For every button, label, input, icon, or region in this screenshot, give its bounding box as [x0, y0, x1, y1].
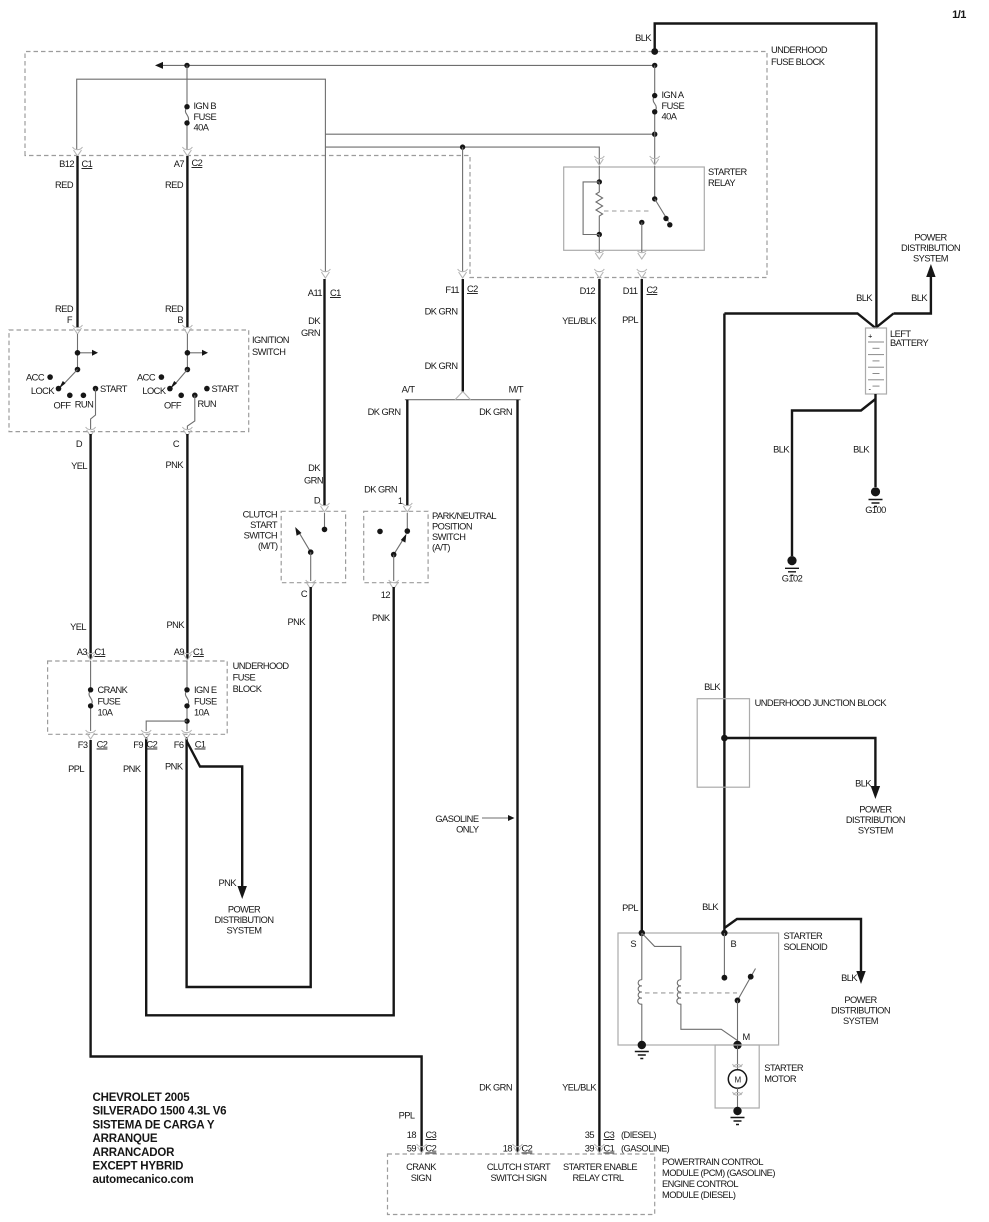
svg-text:SILVERADO 1500 4.3L V6: SILVERADO 1500 4.3L V6 [93, 1106, 227, 1118]
arrow right (right half) [187, 352, 202, 354]
contact OFF [67, 393, 73, 399]
svg-text:18: 18 [503, 1144, 513, 1154]
svg-text:C1: C1 [95, 647, 106, 657]
relay switch feed [654, 166, 656, 199]
svg-text:D11: D11 [623, 286, 638, 296]
svg-text:ARRANQUE: ARRANQUE [93, 1133, 158, 1145]
connector C (ignition switch) [182, 427, 192, 436]
svg-text:BLK: BLK [855, 779, 872, 789]
powertrain control module dashed outline [388, 1154, 655, 1215]
node: battery feed enters fuse block [651, 48, 658, 55]
svg-text:+: + [868, 332, 873, 341]
svg-text:35: 35 [585, 1130, 595, 1140]
svg-text:SWITCH: SWITCH [252, 347, 285, 357]
svg-text:ENGINE CONTROL: ENGINE CONTROL [662, 1179, 738, 1189]
wire: BLK main feed down through junction block to solenoid B [723, 314, 725, 934]
starter solenoid box [618, 933, 779, 1045]
svg-text:FUSE: FUSE [98, 697, 121, 707]
fuse IGN A 40A [654, 65, 656, 134]
node: IGN E output split [184, 718, 189, 723]
svg-text:D12: D12 [580, 286, 596, 296]
svg-text:PPL: PPL [622, 315, 638, 325]
svg-text:DISTRIBUTION: DISTRIBUTION [215, 915, 274, 925]
svg-text:M/T: M/T [509, 385, 524, 395]
connector F (ignition switch) [73, 325, 83, 334]
contact OFF (right) [178, 393, 184, 399]
connector: relay switch top [650, 156, 660, 165]
svg-text:C1: C1 [330, 288, 341, 298]
solenoid hold-in winding [638, 980, 642, 1004]
svg-text:IGN E: IGN E [194, 685, 217, 695]
connector below motor [733, 1092, 743, 1095]
svg-text:(M/T): (M/T) [258, 541, 278, 551]
wire: DK GRN F11 down to A/T M/T fork [462, 279, 464, 392]
svg-text:LOCK: LOCK [142, 386, 166, 396]
park/neutral blade (arrow up-right, near pin 1) [394, 539, 404, 554]
svg-text:10A: 10A [194, 708, 210, 718]
wire: DK GRN A/T branch to park/neutral pin 1 [406, 400, 408, 506]
wire: blade to C terminal [310, 552, 312, 581]
solenoid: hold-in winding to ground [641, 1004, 643, 1045]
svg-text:SWITCH SIGN: SWITCH SIGN [491, 1173, 547, 1183]
svg-text:A11: A11 [308, 288, 323, 298]
svg-text:A3: A3 [77, 647, 88, 657]
svg-text:PNK: PNK [167, 620, 186, 630]
node B feed [185, 350, 191, 356]
wire: junction block branch to power distribution arrow [724, 738, 875, 786]
node: L1 to IGN B fuse [184, 63, 189, 68]
connector C on clutch switch [306, 580, 316, 589]
connector A3 C1 [86, 651, 96, 660]
svg-text:40A: 40A [662, 112, 678, 122]
relay switch blade [655, 199, 669, 222]
connector F11 C2 [458, 269, 468, 278]
svg-text:PNK: PNK [288, 617, 307, 627]
wire: battery positive feed BLK (top) [655, 24, 877, 329]
svg-text:G102: G102 [782, 574, 803, 584]
svg-text:F9: F9 [133, 740, 143, 750]
svg-text:PNK: PNK [372, 613, 391, 623]
underhood fuse block dashed outline [25, 52, 767, 278]
svg-text:DK: DK [308, 463, 321, 473]
svg-text:M: M [743, 1032, 750, 1042]
wire: DK GRN M/T branch (long, to PCM clutch start switch sign) [516, 400, 518, 1152]
svg-text:G100: G100 [865, 505, 886, 515]
svg-text:POWER: POWER [914, 233, 947, 243]
svg-text:DISTRIBUTION: DISTRIBUTION [831, 1006, 890, 1016]
svg-text:PNK: PNK [166, 460, 185, 470]
solenoid: pull-in winding to M [681, 1004, 738, 1045]
svg-text:BLK: BLK [704, 682, 721, 692]
svg-text:M: M [734, 1076, 741, 1085]
svg-text:PNK: PNK [165, 762, 184, 772]
arrow right (left half) [78, 352, 93, 354]
svg-text:DK GRN: DK GRN [425, 307, 458, 317]
wire: BLK battery bus right branch with up arrow to power distribution [876, 276, 931, 328]
svg-text:STARTER ENABLE: STARTER ENABLE [563, 1162, 637, 1172]
svg-text:GRN: GRN [304, 476, 323, 486]
PCM connector pins: 18 C3 / 59 C2 [417, 1144, 427, 1153]
solenoid ground [638, 1041, 646, 1049]
svg-text:SWITCH: SWITCH [244, 531, 277, 541]
ground G100 [871, 487, 880, 496]
svg-text:PPL: PPL [399, 1111, 415, 1121]
connector F6 C1 [182, 730, 192, 739]
svg-text:SYSTEM: SYSTEM [858, 826, 893, 836]
connector F9 C2 [141, 730, 151, 739]
connector B (ignition switch) [182, 325, 192, 334]
svg-text:40A: 40A [194, 123, 210, 133]
contact RUN [81, 393, 87, 399]
ground G102 [787, 556, 796, 565]
clutch switch blade (open, arrow up-left) [299, 532, 311, 552]
svg-text:B12: B12 [59, 159, 74, 169]
park/neutral position switch dashed outline [364, 511, 428, 582]
contact START [93, 386, 99, 392]
svg-text:POSITION: POSITION [432, 522, 472, 532]
svg-text:IGNITION: IGNITION [252, 335, 289, 345]
svg-text:OFF: OFF [54, 401, 72, 411]
wire: PNK park/neutral 12 loop down-left-up to F9 C2 [146, 587, 394, 1015]
wire: PNK ignition C to A9 [186, 434, 188, 659]
svg-text:C2: C2 [467, 284, 478, 294]
svg-text:BLK: BLK [702, 902, 719, 912]
svg-text:F3: F3 [78, 740, 88, 750]
svg-text:59: 59 [407, 1144, 417, 1154]
svg-text:ONLY: ONLY [456, 825, 479, 835]
fuse IGN B 40A [186, 65, 188, 150]
wire: PPL D11 to starter solenoid S [641, 279, 643, 933]
wire: RUN to C terminal [187, 395, 194, 429]
contact START (right) [204, 386, 210, 392]
contact LOCK [56, 386, 62, 392]
underhood fuse block (lower) dashed outline [48, 661, 228, 734]
svg-text:D: D [76, 439, 83, 449]
svg-text:ACC: ACC [26, 373, 45, 383]
relay coil resistor [596, 182, 603, 235]
wire: B feed [186, 334, 188, 370]
svg-text:START: START [100, 384, 128, 394]
svg-text:FUSE: FUSE [194, 697, 217, 707]
wire: F11 internal drop [462, 147, 464, 272]
contact ACC (right) [159, 374, 165, 380]
svg-text:SISTEMA DE CARGA Y: SISTEMA DE CARGA Y [93, 1119, 215, 1131]
svg-text:F11: F11 [445, 285, 459, 295]
svg-text:C2: C2 [522, 1144, 533, 1154]
svg-text:BLK: BLK [773, 445, 790, 455]
starter motor box [715, 1045, 759, 1108]
relay coil parallel bracket [583, 182, 599, 235]
svg-text:MOTOR: MOTOR [764, 1074, 797, 1084]
svg-text:CLUTCH: CLUTCH [243, 510, 277, 520]
svg-text:PPL: PPL [68, 764, 84, 774]
wire: fuse block internal bus L1 with left arrow [163, 64, 655, 66]
solenoid hold-in winding feed [641, 933, 643, 980]
svg-text:A7: A7 [174, 159, 185, 169]
solenoid: S to pull-in winding routing [642, 933, 681, 980]
wire: YEL/BLK D12 to PCM starter enable relay ctrl [598, 279, 600, 1152]
svg-text:PNK: PNK [219, 878, 238, 888]
relay output contact [639, 220, 644, 225]
wire: BLK branch from B feed to power distribution arrow (mid right) [724, 919, 861, 971]
svg-text:C2: C2 [97, 740, 108, 750]
svg-text:GRN: GRN [301, 328, 320, 338]
wire: motor to ground [737, 1088, 739, 1111]
svg-text:RED: RED [165, 180, 184, 190]
svg-text:SYSTEM: SYSTEM [227, 926, 262, 936]
connector: relay coil bottom [594, 250, 604, 259]
svg-text:LOCK: LOCK [31, 386, 55, 396]
svg-text:12: 12 [381, 590, 391, 600]
svg-text:PPL: PPL [622, 903, 638, 913]
svg-text:POWER: POWER [228, 905, 261, 915]
contact RUN (right) [192, 393, 198, 399]
svg-text:SYSTEM: SYSTEM [843, 1016, 878, 1026]
node: IGN A output [652, 132, 657, 137]
svg-text:C1: C1 [193, 647, 204, 657]
svg-text:RED: RED [165, 304, 184, 314]
svg-text:SOLENOID: SOLENOID [784, 942, 828, 952]
svg-text:RED: RED [55, 304, 74, 314]
svg-text:F: F [67, 315, 73, 325]
wire: internal bus L4 (to starter relay switch feed) [325, 147, 599, 164]
svg-text:B: B [731, 939, 737, 949]
PCM connector pin: 18 C2 [513, 1144, 523, 1153]
svg-text:C3: C3 [426, 1130, 437, 1140]
svg-text:C1: C1 [604, 1144, 615, 1154]
svg-text:BLOCK: BLOCK [233, 684, 263, 694]
svg-text:IGN A: IGN A [662, 90, 685, 100]
ignition switch dashed outline [9, 330, 249, 432]
svg-text:C1: C1 [195, 740, 206, 750]
relay linkage dashed [604, 210, 651, 212]
svg-text:S: S [630, 939, 636, 949]
svg-text:PNK: PNK [123, 764, 142, 774]
node: solenoid B terminal [721, 930, 727, 936]
wire: battery negative branch to G102 [792, 399, 876, 556]
svg-text:STARTER: STARTER [708, 167, 748, 177]
wire: PNK branch from F6 to power distribution arrow [187, 741, 243, 886]
node: junction block tap [721, 735, 728, 742]
wire: START to D terminal [91, 389, 96, 429]
connector 12 on park/neutral switch [389, 580, 399, 589]
connector F3 C2 [86, 730, 96, 739]
svg-text:START: START [212, 384, 240, 394]
solenoid: B internal contact [723, 933, 725, 978]
node F feed [75, 350, 81, 356]
svg-text:DISTRIBUTION: DISTRIBUTION [846, 815, 905, 825]
svg-text:PARK/NEUTRAL: PARK/NEUTRAL [432, 511, 496, 521]
svg-text:POWERTRAIN CONTROL: POWERTRAIN CONTROL [662, 1157, 763, 1167]
rotor blade to LOCK [63, 370, 78, 385]
svg-text:IGN B: IGN B [194, 101, 217, 111]
svg-text:FUSE BLOCK: FUSE BLOCK [771, 57, 826, 67]
wire: blade to 12 terminal [393, 555, 395, 581]
wire: BLK battery bus horizontal to battery + [724, 314, 875, 329]
svg-text:DK GRN: DK GRN [368, 407, 401, 417]
connector D11 C2 [637, 269, 647, 278]
wire: battery negative down to G100 [874, 394, 876, 487]
connector 1 on park/neutral switch [402, 503, 412, 512]
starter motor armature [728, 1070, 746, 1088]
solenoid switch blade [738, 969, 756, 1001]
connector B12 C1 [73, 147, 83, 156]
connector above motor [733, 1064, 743, 1067]
svg-text:BLK: BLK [911, 293, 928, 303]
svg-text:10A: 10A [98, 708, 114, 718]
svg-text:A/T: A/T [402, 385, 416, 395]
svg-text:DK GRN: DK GRN [425, 361, 458, 371]
svg-text:DK GRN: DK GRN [364, 485, 397, 495]
connector A7 C2 [182, 147, 192, 156]
svg-text:STARTER: STARTER [784, 931, 824, 941]
connector: relay output bottom [637, 250, 647, 259]
connector A11 C1 [320, 269, 330, 278]
wire: PPL F3 down, right, down to PCM crank sign [91, 740, 422, 1152]
svg-text:C2: C2 [426, 1144, 437, 1154]
svg-text:CRANK: CRANK [406, 1162, 437, 1172]
svg-text:YEL/BLK: YEL/BLK [562, 316, 597, 326]
svg-text:ACC: ACC [137, 373, 156, 383]
svg-text:YEL: YEL [71, 461, 87, 471]
svg-text:BATTERY: BATTERY [890, 338, 929, 348]
fork bar A/T - M/T [405, 399, 521, 401]
svg-text:MODULE (DIESEL): MODULE (DIESEL) [662, 1190, 736, 1200]
rotor blade to LOCK (right) [174, 370, 187, 385]
svg-text:OFF: OFF [164, 401, 182, 411]
svg-text:START: START [250, 520, 278, 530]
svg-text:SYSTEM: SYSTEM [913, 254, 948, 264]
wire: internal bus L3 (to IGN A bottom) [325, 133, 654, 135]
svg-text:SWITCH: SWITCH [432, 532, 465, 542]
wire: IGN A feed into starter relay [654, 134, 656, 164]
underhood junction block box [697, 699, 749, 788]
PCM connector pins: 35 C3 / 39 C1 [594, 1144, 604, 1153]
relay coil wire bottom [598, 235, 600, 253]
svg-text:C2: C2 [192, 158, 203, 168]
clutch start switch dashed outline [281, 511, 345, 582]
svg-text:CHEVROLET 2005: CHEVROLET 2005 [93, 1092, 191, 1104]
svg-text:DISTRIBUTION: DISTRIBUTION [901, 243, 960, 253]
svg-text:C3: C3 [604, 1130, 615, 1140]
svg-text:POWER: POWER [844, 995, 877, 1005]
connector D (ignition switch) [86, 427, 96, 436]
svg-text:1/1: 1/1 [952, 9, 966, 21]
svg-text:C: C [301, 589, 308, 599]
relay coil wire top [598, 166, 600, 182]
svg-text:MODULE (PCM) (GASOLINE): MODULE (PCM) (GASOLINE) [662, 1168, 775, 1178]
svg-text:GASOLINE: GASOLINE [435, 814, 478, 824]
node: L1 to battery feed [652, 63, 657, 68]
battery LEFT BATTERY [866, 328, 887, 394]
starter motor ground [733, 1107, 741, 1115]
svg-text:18: 18 [407, 1130, 417, 1140]
svg-text:BLK: BLK [856, 293, 873, 303]
svg-text:UNDERHOOD: UNDERHOOD [233, 661, 290, 671]
svg-text:F6: F6 [174, 740, 184, 750]
park/neutral internals: pin 1 contact [406, 513, 408, 531]
svg-text:CRANK: CRANK [98, 685, 129, 695]
solenoid linkage dashed [645, 992, 737, 994]
svg-text:POWER: POWER [859, 805, 892, 815]
svg-text:RUN: RUN [75, 400, 94, 410]
svg-text:1: 1 [398, 496, 403, 506]
svg-text:BLK: BLK [635, 33, 652, 43]
svg-text:DK GRN: DK GRN [479, 407, 512, 417]
connector A9 C1 [182, 651, 192, 660]
svg-text:YEL/BLK: YEL/BLK [562, 1083, 597, 1093]
svg-text:BLK: BLK [853, 445, 870, 455]
svg-text:BLK: BLK [841, 973, 858, 983]
wire: M to motor [737, 1045, 739, 1070]
connector D12 [594, 269, 604, 278]
wire: F feed [77, 334, 79, 370]
svg-text:FUSE: FUSE [662, 101, 685, 111]
svg-text:RELAY: RELAY [708, 178, 735, 188]
wire: DK GRN A11 to clutch start switch D [323, 279, 325, 506]
park/neutral spare contact [377, 529, 383, 535]
wire: PNK clutch C loop down-left-up to F6 C1 [187, 587, 311, 987]
node: solenoid S terminal [639, 930, 645, 936]
wire: internal bus L2 (B12 to A11 riser) [77, 79, 326, 272]
svg-text:RELAY CTRL: RELAY CTRL [573, 1173, 624, 1183]
node: L4 to F11 [460, 144, 465, 149]
svg-text:EXCEPT HYBRID: EXCEPT HYBRID [93, 1161, 184, 1173]
svg-text:39: 39 [585, 1144, 595, 1154]
svg-text:B: B [177, 315, 183, 325]
svg-text:-: - [869, 385, 872, 394]
svg-text:(DIESEL): (DIESEL) [621, 1130, 656, 1140]
wire: IGN E output branch to F9 [146, 721, 187, 731]
svg-text:UNDERHOOD: UNDERHOOD [771, 45, 828, 55]
svg-text:(A/T): (A/T) [432, 543, 450, 553]
wire: YEL ignition D to A3 [89, 434, 91, 659]
svg-text:(GASOLINE): (GASOLINE) [621, 1144, 670, 1154]
fuse IGN E 10A [186, 661, 188, 731]
svg-text:C2: C2 [147, 740, 158, 750]
svg-text:CLUTCH START: CLUTCH START [487, 1162, 551, 1172]
svg-text:RUN: RUN [198, 399, 217, 409]
wire: RED A7 to ignition switch B [186, 156, 188, 328]
fuse CRANK 10A [90, 661, 92, 731]
clutch switch internals: D contact [324, 513, 326, 529]
contact ACC [47, 374, 53, 380]
svg-text:DK: DK [308, 316, 321, 326]
svg-text:ARRANCADOR: ARRANCADOR [93, 1147, 176, 1159]
wire: RED B12 to ignition switch F [76, 156, 78, 328]
svg-text:A9: A9 [174, 647, 185, 657]
svg-text:C1: C1 [82, 159, 93, 169]
svg-text:UNDERHOOD JUNCTION BLOCK: UNDERHOOD JUNCTION BLOCK [755, 698, 888, 708]
solenoid: blade to M terminal [737, 1000, 739, 1045]
svg-text:automecanico.com: automecanico.com [93, 1174, 194, 1186]
solenoid pull-in winding [677, 980, 681, 1004]
svg-text:FUSE: FUSE [194, 112, 217, 122]
connector: relay coil top [594, 156, 604, 165]
svg-text:SIGN: SIGN [411, 1173, 432, 1183]
svg-text:C2: C2 [647, 285, 658, 295]
starter relay box [564, 167, 705, 250]
svg-text:YEL: YEL [70, 622, 86, 632]
svg-text:STARTER: STARTER [764, 1063, 804, 1073]
svg-text:RED: RED [55, 180, 74, 190]
svg-text:FUSE: FUSE [233, 673, 256, 683]
contact LOCK (right) [167, 386, 173, 392]
svg-text:C: C [173, 439, 180, 449]
node: solenoid M terminal [733, 1041, 741, 1049]
connector D on clutch switch [320, 503, 330, 512]
svg-text:DK GRN: DK GRN [479, 1083, 512, 1093]
